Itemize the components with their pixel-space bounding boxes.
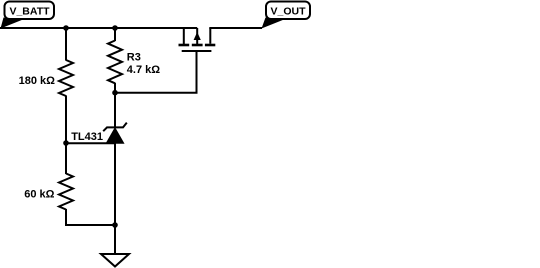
transistor PMOS drain lead (209, 28, 211, 44)
svg-text:V_BATT: V_BATT (9, 5, 50, 17)
wire to ground (114, 225, 116, 254)
svg-text:R3: R3 (127, 52, 141, 64)
node junction bottom (115,225) (112, 222, 118, 228)
node junction top-left (66,28) (63, 25, 69, 31)
ground (101, 254, 129, 267)
svg-text:TL431: TL431 (71, 131, 103, 143)
wire middle branch upper lead (114, 28, 116, 41)
svg-text:60 kΩ: 60 kΩ (24, 188, 54, 200)
wire gate to divider (115, 51, 197, 93)
svg-text:4.7 kΩ: 4.7 kΩ (127, 64, 160, 76)
wire left branch bottom corner to middle (66, 209, 115, 225)
wire left branch upper lead (65, 28, 67, 61)
resistor 180k (19, 60, 73, 96)
resistor 60k (24, 174, 73, 210)
transistor PMOS channel bars (179, 44, 216, 47)
node junction top-middle (115,28) (112, 25, 118, 31)
transistor PMOS source lead (183, 28, 185, 44)
TL431 shunt regulator (71, 123, 127, 144)
net flag V_BATT (1, 2, 55, 29)
node junction gate tap (115,92.7) (112, 90, 118, 96)
transistor PMOS body lead with arrow (194, 28, 201, 44)
wire left branch lower lead (65, 143, 67, 174)
transistor PMOS gate plate (182, 50, 212, 52)
wire TL431 ref wire (66, 142, 115, 144)
node junction ref tap (66,143) (63, 140, 69, 146)
wire drain to V_OUT (209, 27, 262, 29)
wire top rail V_BATT (0, 27, 197, 29)
wire TL431 anode down (114, 143, 116, 225)
svg-text:180 kΩ: 180 kΩ (19, 75, 56, 87)
resistor R3 (108, 41, 160, 84)
wire left branch mid lead (65, 96, 67, 144)
wire middle branch to TL431 cathode (114, 83, 116, 128)
svg-text:V_OUT: V_OUT (270, 5, 306, 17)
net flag V_OUT (262, 2, 311, 29)
